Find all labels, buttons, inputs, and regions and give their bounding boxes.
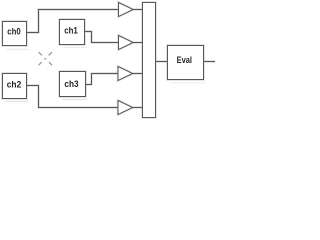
svg-text:ch2: ch2 [7,80,22,90]
svg-text:ch1: ch1 [64,25,78,35]
svg-text:ch3: ch3 [64,79,78,89]
svg-text:Eval: Eval [177,55,192,65]
svg-text:ch0: ch0 [7,26,20,36]
